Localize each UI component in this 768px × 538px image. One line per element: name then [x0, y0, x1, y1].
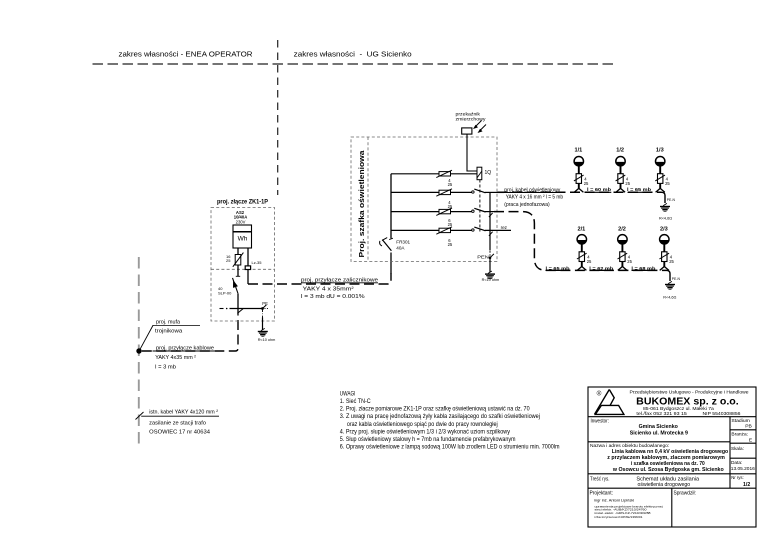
svg-text:rez: rez	[501, 225, 508, 230]
svg-text:Przedsiębiorstwo Usługowo - Pr: Przedsiębiorstwo Usługowo - Produkcyjne …	[630, 389, 750, 394]
svg-text:Wh: Wh	[238, 235, 248, 242]
svg-text:Treść rys.: Treść rys.	[590, 476, 610, 482]
svg-text:tel./fax 052 321 93 15: tel./fax 052 321 93 15	[636, 411, 687, 417]
svg-text:230V: 230V	[236, 219, 246, 224]
svg-text:1/2: 1/2	[616, 148, 624, 154]
svg-text:oraz kabla oświetleniowego spi: oraz kabla oświetleniowego spiąć po dwie…	[347, 421, 498, 428]
svg-text:25: 25	[226, 258, 231, 263]
svg-text:YAKY 4x35 mm ²: YAKY 4x35 mm ²	[155, 355, 196, 361]
svg-text:proj. przyłącze kablowe: proj. przyłącze kablowe	[156, 346, 214, 352]
svg-text:1. Sieć TN-C: 1. Sieć TN-C	[340, 398, 371, 405]
svg-text:proj. kabel oświetleniowy: proj. kabel oświetleniowy	[504, 187, 560, 193]
svg-text:YAKY 4 x 35mm²: YAKY 4 x 35mm²	[303, 286, 354, 292]
svg-text:Nr rys:: Nr rys:	[731, 475, 744, 481]
svg-text:2/2: 2/2	[618, 226, 626, 232]
svg-text:l = 65 mb: l = 65 mb	[546, 266, 570, 272]
svg-text:25: 25	[448, 182, 453, 187]
svg-text:l = 68 mb: l = 68 mb	[631, 266, 655, 272]
svg-text:l = 60 mb: l = 60 mb	[587, 187, 611, 193]
svg-text:mgr inż. Antoni Lipiński: mgr inż. Antoni Lipiński	[594, 498, 634, 503]
svg-text:Linia kablowa nn 0,4 kV oświet: Linia kablowa nn 0,4 kV oświetlenia drog…	[612, 449, 728, 455]
svg-text:proj. mufa: proj. mufa	[156, 319, 181, 325]
svg-text:R<4,6Ω: R<4,6Ω	[659, 216, 672, 220]
svg-text:w Osowcu ul. Szosa Bydgoska gm: w Osowcu ul. Szosa Bydgoska gm. Sicienko	[612, 467, 724, 473]
svg-text:(praca jednofazowa): (praca jednofazowa)	[504, 202, 550, 208]
svg-text:NIP 5540308856: NIP 5540308856	[703, 411, 741, 417]
svg-text:istn. kabel YAKY 4x120 mm ²: istn. kabel YAKY 4x120 mm ²	[149, 410, 218, 416]
svg-text:Skala:: Skala:	[731, 446, 744, 452]
svg-text:1/2: 1/2	[743, 482, 750, 488]
svg-text:13.05.2016: 13.05.2016	[731, 466, 755, 472]
svg-text:proj. złącze ZK1-1P: proj. złącze ZK1-1P	[217, 199, 269, 206]
svg-text:3. Z uwagi na pracę jednofazow: 3. Z uwagi na pracę jednofazową żyły kab…	[340, 413, 540, 420]
svg-text:Nazwa i adres obiektu budowlan: Nazwa i adres obiektu budowlanego:	[590, 443, 669, 449]
svg-text:2. Proj. złacze pomiarowe ZK1-: 2. Proj. złacze pomiarowe ZK1-1P oraz sz…	[340, 406, 530, 413]
svg-text:YAKY 4 x 16 mm ² l = 5 mb: YAKY 4 x 16 mm ² l = 5 mb	[506, 195, 563, 201]
svg-text:l = 65 mb: l = 65 mb	[627, 187, 651, 193]
svg-text:85-061 Bydgoszcz ul. Małeki 7a: 85-061 Bydgoszcz ul. Małeki 7a	[643, 406, 714, 412]
svg-text:R<4,6Ω: R<4,6Ω	[663, 295, 676, 299]
svg-text:zmierzchowy: zmierzchowy	[456, 117, 487, 122]
svg-text:PB: PB	[745, 424, 752, 430]
svg-text:z przylaczem kablowym, zlaczem: z przylaczem kablowym, zlaczem pomiarowy…	[607, 455, 725, 461]
svg-text:Sicienko ul. Mrotecka 9: Sicienko ul. Mrotecka 9	[630, 430, 688, 436]
svg-text:Data:: Data:	[731, 460, 742, 466]
svg-text:PE-N: PE-N	[672, 277, 681, 281]
svg-text:BUKOMEX sp. z o.o.: BUKOMEX sp. z o.o.	[636, 396, 739, 407]
svg-text:l = 62 mb: l = 62 mb	[589, 266, 613, 272]
svg-text:40A: 40A	[396, 246, 405, 251]
svg-text:SLP-00: SLP-00	[218, 290, 232, 295]
svg-text:R<10 ohm: R<10 ohm	[482, 278, 500, 282]
svg-text:Sprawdził:: Sprawdził:	[674, 490, 696, 496]
svg-text:6. Oprawy oświetleniowe z lamp: 6. Oprawy oświetleniowe z lampą sodową 1…	[340, 444, 560, 451]
svg-text:Stadium: Stadium	[731, 418, 749, 424]
svg-text:PE: PE	[262, 301, 268, 306]
svg-text:1Q: 1Q	[485, 170, 492, 176]
svg-text:zakres własności - ENEA OPERAT: zakres własności - ENEA OPERATOR	[119, 51, 253, 58]
svg-text:1/1: 1/1	[575, 148, 583, 154]
svg-text:zakres własności - UG Sicien: zakres własności - UG Sicienko	[294, 51, 412, 58]
svg-text:1/3: 1/3	[656, 148, 664, 154]
svg-text:OSOWIEC 17 nr 40634: OSOWIEC 17 nr 40634	[149, 430, 210, 436]
svg-text:®: ®	[597, 390, 602, 398]
svg-text:Projektant:: Projektant:	[590, 491, 614, 497]
svg-text:proj. przyłącze zalicznikowe: proj. przyłącze zalicznikowe	[301, 278, 378, 284]
svg-text:5. Słup oświetleniowy stalowy: 5. Słup oświetleniowy stalowy h = 7mb na…	[340, 436, 516, 443]
svg-text:Lz-35: Lz-35	[252, 260, 263, 265]
svg-text:izba inzynierow-KUP/IE/1396/01: izba inzynierow-KUP/IE/1396/01	[595, 515, 643, 519]
svg-text:l = 3 mb: l = 3 mb	[155, 364, 176, 370]
svg-text:l = 3 mb dU = 0.001%: l = 3 mb dU = 0.001%	[301, 294, 365, 300]
svg-text:4. Przy proj. słupie oświetlen: 4. Przy proj. słupie oświetleniowym 1/3 …	[340, 428, 511, 435]
svg-text:Inwestor:: Inwestor:	[591, 418, 609, 424]
svg-text:25: 25	[448, 222, 453, 227]
svg-text:R<10 ohm: R<10 ohm	[258, 338, 276, 342]
svg-text:FR301: FR301	[396, 240, 410, 245]
svg-text:zasilanie ze stacji trafo: zasilanie ze stacji trafo	[149, 420, 206, 426]
svg-text:oświetlenia drogowego: oświetlenia drogowego	[638, 482, 691, 488]
svg-text:25: 25	[448, 242, 453, 247]
svg-text:Branża:: Branża:	[731, 431, 748, 437]
svg-text:Proj. szafka oświetleniowa: Proj. szafka oświetleniowa	[359, 150, 366, 257]
svg-text:25: 25	[448, 204, 453, 209]
svg-text:2/3: 2/3	[660, 226, 668, 232]
svg-text:2/1: 2/1	[578, 226, 586, 232]
svg-text:UWAGI: UWAGI	[340, 390, 356, 397]
svg-text:PEN: PEN	[477, 255, 489, 260]
svg-text:PE-N: PE-N	[667, 198, 676, 202]
svg-text:Gmina Sicienko: Gmina Sicienko	[639, 424, 679, 430]
svg-text:trojnikowa: trojnikowa	[155, 328, 183, 334]
